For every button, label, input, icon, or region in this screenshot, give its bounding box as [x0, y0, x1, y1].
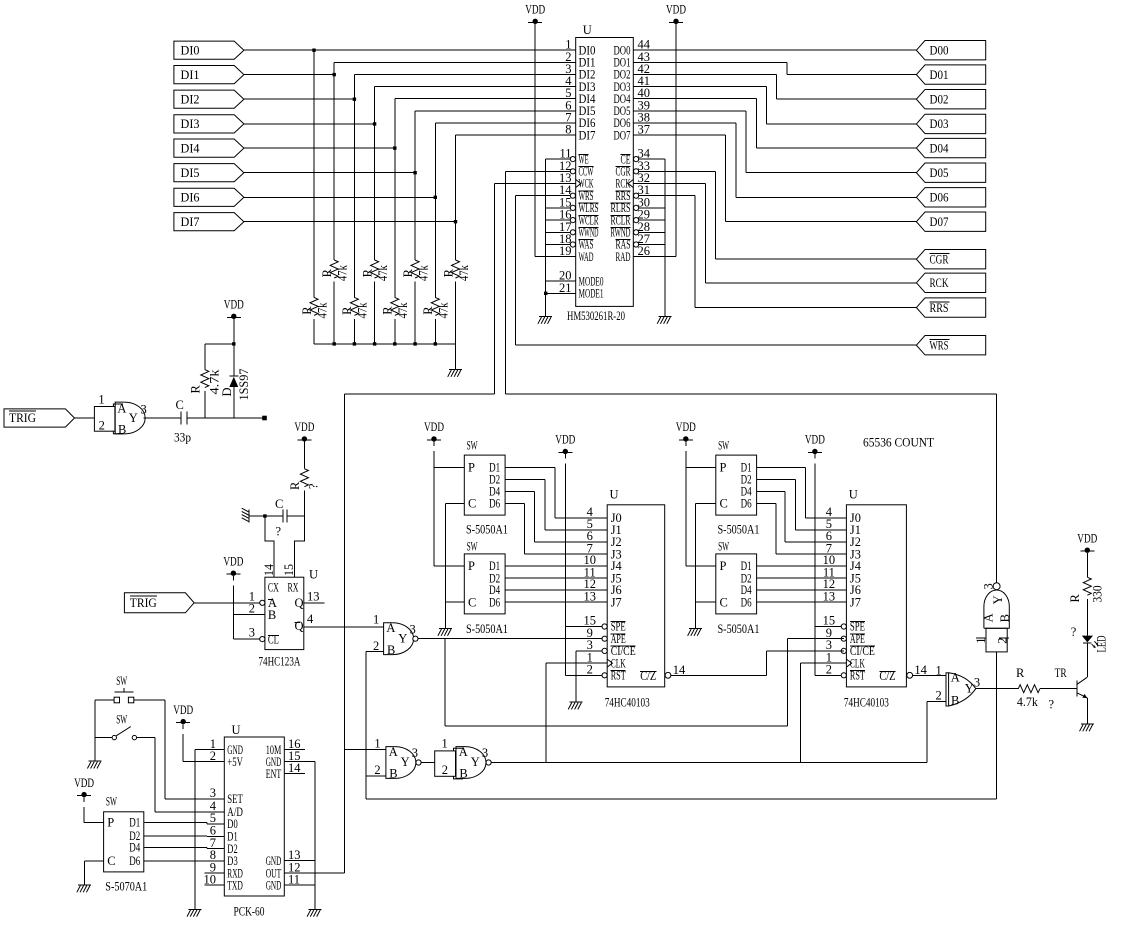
svg-text:S-5050A1: S-5050A1: [466, 522, 508, 536]
diode D 1SS97: [220, 344, 251, 418]
svg-text:WRS: WRS: [930, 338, 949, 352]
resistor R ? (123A timing): [288, 442, 321, 516]
power VDD (right switch P): [676, 420, 696, 441]
wire TXD stub: [205, 884, 225, 886]
power VDD (left SPE/RST): [555, 433, 575, 454]
svg-text:13: 13: [583, 589, 596, 603]
pin 7 DI6 label: [565, 111, 595, 131]
svg-text:HM530261R-20: HM530261R-20: [567, 309, 625, 323]
svg-text:47k: 47k: [396, 302, 410, 319]
wire left D2 to J1: [505, 480, 607, 530]
svg-text:VDD: VDD: [805, 433, 825, 447]
svg-text:S-5070A1: S-5070A1: [105, 880, 147, 894]
node TRIG input arrow (to 123A): [124, 593, 194, 613]
wire resistor to base: [1040, 688, 1077, 690]
svg-text:A: A: [386, 621, 395, 635]
pin 15 WLRS: [559, 195, 599, 215]
svg-text:DI4: DI4: [181, 141, 201, 155]
node terminal square: [262, 416, 267, 421]
gate U XOR (C/Z vs clock): [935, 670, 980, 707]
power VDD (S-5070A1 P): [74, 776, 94, 798]
svg-text:1: 1: [974, 638, 988, 644]
svg-text:47k: 47k: [356, 302, 370, 319]
svg-text:C: C: [176, 398, 184, 412]
svg-text:CX: CX: [268, 581, 279, 595]
svg-text:S-5050A1: S-5050A1: [466, 622, 508, 636]
svg-text:47k: 47k: [336, 264, 350, 281]
svg-text:P: P: [468, 559, 475, 573]
wire pin40 DO4 to D04: [633, 99, 916, 148]
resistor R 4.7k (pull-up): [188, 344, 221, 418]
svg-text:8: 8: [565, 123, 571, 137]
wire pin33 CGR to CGR arrow: [639, 171, 917, 259]
wire right D2 to J1: [757, 480, 847, 530]
ground (PCK-60 pin1): [187, 909, 201, 916]
svg-text:3: 3: [982, 583, 996, 589]
svg-text:CGR: CGR: [930, 252, 949, 266]
wire left C/Z carry to right CI/CE: [671, 651, 767, 675]
PCK-60 right pin labels: [266, 737, 302, 892]
wire B-net vertical and bottom run: [366, 652, 997, 799]
wire pin13 WCK out: [495, 184, 576, 395]
wire left CI/CE to ground: [576, 651, 602, 702]
node CGR output arrow: [916, 250, 985, 269]
svg-text:SW: SW: [467, 539, 478, 553]
ground (cap left, rotated): [242, 508, 249, 522]
svg-text:1: 1: [442, 737, 448, 751]
svg-text:26: 26: [638, 244, 651, 258]
svg-text:Y: Y: [471, 755, 480, 769]
switch SW S-5050A1 (left lower): [464, 539, 508, 636]
ground (left of IC): [538, 317, 552, 324]
svg-text:ENT: ENT: [266, 767, 282, 781]
ground (right switch C): [688, 629, 702, 636]
svg-text:Y: Y: [398, 631, 407, 645]
resistor R 47k pull-down on DI4: [381, 148, 411, 344]
svg-text:A: A: [389, 745, 398, 759]
wire pin12 CCW out: [505, 171, 570, 394]
pin 4 DI3 label: [565, 74, 595, 94]
svg-text:B: B: [387, 643, 395, 657]
wire DI1 to pull-up column and pin 2: [244, 62, 576, 76]
svg-text:GND: GND: [266, 878, 282, 892]
ground (switch common): [87, 761, 101, 768]
svg-text:4: 4: [307, 612, 314, 626]
wire A/D pin: [155, 811, 225, 813]
svg-text:SW: SW: [116, 674, 127, 688]
pin 13 WCK clock wedge: [576, 180, 581, 188]
power VDD (123A RX resistor): [294, 420, 314, 441]
pin 30 RLRS: [611, 195, 651, 215]
pin 27 RAS: [616, 232, 651, 252]
pin 12 CCW: [559, 159, 594, 179]
wire 10M stub: [284, 749, 305, 751]
switch SW S-5050A1 (right upper): [716, 438, 760, 536]
wire resistor common rail to ground: [314, 342, 456, 369]
pin 8 DI7 label: [565, 123, 595, 143]
svg-text:47k: 47k: [376, 264, 390, 281]
ground (emitter): [1080, 724, 1094, 731]
svg-text:VDD: VDD: [294, 420, 314, 434]
svg-text:RX: RX: [288, 581, 299, 595]
wire pin31 RRS to RRS arrow: [639, 196, 917, 308]
resistor R 47k pull-down on DI5: [401, 173, 431, 344]
pin 38 DO6 label and wire: [614, 111, 651, 131]
svg-text:14: 14: [288, 761, 301, 775]
IC U 74HC40103 (right) body: [823, 488, 928, 710]
pin 21 MODE1: [544, 281, 604, 301]
IC U PCK-60 body: [224, 723, 284, 918]
wire C pins to ground (right): [695, 504, 715, 629]
wire gate1 B input: [366, 775, 386, 777]
pin 41 DO3 label and wire: [614, 74, 651, 94]
pin 40 DO4 label and wire: [614, 86, 651, 106]
svg-text:DI7: DI7: [579, 128, 596, 142]
svg-text:J7: J7: [611, 595, 622, 609]
svg-text:D04: D04: [930, 141, 950, 155]
svg-text:A: A: [951, 670, 960, 684]
svg-text:R: R: [188, 385, 202, 394]
PCK-60 left pin labels: [204, 737, 244, 892]
svg-text:RAD: RAD: [616, 250, 631, 264]
wire WCK net (pin13 to PCK-60 OUT and gate): [344, 394, 494, 873]
wire DI4 to pull-up column and pin 5: [244, 99, 576, 150]
svg-text:DI7: DI7: [181, 215, 200, 229]
node RCK output arrow: [916, 273, 985, 292]
svg-text:J7: J7: [850, 595, 861, 609]
svg-text:DI5: DI5: [181, 166, 200, 180]
wire pin1 GND to ground: [195, 750, 225, 910]
wire DI3 to pull-up column and pin 4: [244, 87, 576, 126]
svg-text:VDD: VDD: [224, 298, 244, 312]
wire VDD to SPE and RST (right): [815, 454, 841, 675]
pin 1 A wire with bubble: [194, 590, 265, 606]
resistor R 47k pull-down on DI0: [300, 50, 330, 344]
switch SW S-5070A1: [104, 795, 148, 894]
node D03 output arrow: [916, 114, 985, 133]
svg-text:Y: Y: [401, 755, 410, 769]
svg-text:DI1: DI1: [181, 68, 200, 82]
resistor R 47k pull-down on DI7: [441, 222, 471, 344]
svg-text:D05: D05: [930, 166, 949, 180]
wire left lower D to J4: [505, 565, 607, 567]
wire RXD stub: [205, 872, 225, 874]
svg-text:330: 330: [1091, 586, 1105, 603]
gate U NAND 2 (clock driver): [435, 737, 492, 781]
wire right C/Z to XOR A: [912, 674, 946, 676]
pin 32 RCK clock wedge: [628, 180, 633, 188]
wire gate1 A input: [344, 749, 386, 751]
wire D1 to PCK D0: [144, 822, 225, 824]
resistor R 47k pull-down on DI2: [340, 99, 370, 344]
wire right lower D to J7: [757, 601, 847, 603]
pin 3 DI2 label: [565, 62, 595, 82]
svg-text:37: 37: [638, 123, 651, 137]
pin 17 WWND: [559, 220, 599, 240]
svg-text:P: P: [720, 461, 727, 475]
svg-text:3: 3: [482, 746, 488, 760]
wire VDD to SPE and RST (left): [565, 454, 602, 675]
pin 1 DI0 label: [565, 38, 595, 58]
wire C pin to ground: [85, 861, 104, 885]
switch SW (A/D toggle): [112, 712, 136, 740]
wire APE link down and right counter APE: [445, 639, 788, 726]
wire right control pins to ground: [639, 159, 665, 316]
wire OUT pin to WCK net: [284, 872, 344, 874]
wire toggle contacts: [95, 738, 155, 812]
svg-text:VDD: VDD: [74, 776, 94, 790]
svg-text:R: R: [1016, 666, 1025, 680]
IC U 74HC40103 (left) body: [583, 488, 686, 710]
capacitor C 33p: [174, 398, 191, 445]
svg-text:R: R: [401, 268, 415, 277]
pin 18 WAS: [559, 232, 594, 252]
svg-text:3: 3: [249, 626, 255, 640]
ground (resistor rail): [448, 370, 462, 377]
resistor R 4.7k (base): [1016, 666, 1055, 711]
svg-text:R: R: [441, 268, 455, 277]
ground (right of IC): [657, 317, 671, 324]
svg-text:B: B: [951, 693, 959, 707]
svg-text:VDD: VDD: [555, 433, 575, 447]
wire VDD to pin 2 B and pin 3 CL: [233, 576, 265, 642]
svg-text:Q: Q: [295, 619, 304, 633]
node DI5 input arrow: [174, 164, 244, 182]
svg-text:SW: SW: [718, 438, 729, 452]
svg-text:R: R: [381, 306, 395, 315]
svg-text:13: 13: [823, 589, 836, 603]
wire LED to R330: [1086, 599, 1088, 636]
gate U NAND (after 123A): [373, 612, 418, 657]
wire right CLK input: [800, 662, 846, 664]
svg-text:3: 3: [141, 403, 147, 417]
pin 33 CGR: [616, 159, 651, 179]
power VDD (left switch P): [424, 420, 444, 441]
svg-text:A: A: [981, 613, 995, 622]
svg-text:A: A: [117, 401, 126, 415]
svg-text:R: R: [300, 306, 314, 315]
ground (left CI/CE): [568, 702, 582, 709]
svg-text:P: P: [468, 461, 475, 475]
wire left control pins to ground: [546, 159, 571, 316]
svg-text:SW: SW: [106, 795, 117, 809]
svg-text:R: R: [320, 268, 334, 277]
svg-text:P: P: [720, 559, 727, 573]
wire gate Y to APE (left 74HC40103): [418, 638, 602, 640]
svg-text:2: 2: [826, 663, 832, 677]
svg-text:U: U: [583, 23, 592, 37]
svg-text:D02: D02: [930, 92, 949, 106]
wire VDD to pin19 WAD: [534, 24, 536, 257]
svg-text:2: 2: [587, 663, 593, 677]
resistor R 47k pull-down on DI3: [360, 124, 390, 344]
svg-text:19: 19: [559, 244, 572, 258]
svg-text:RCK: RCK: [930, 276, 949, 290]
svg-text:3: 3: [210, 786, 216, 800]
IC U HM530261R-20 body: [567, 23, 633, 323]
node D02 output arrow: [916, 90, 985, 109]
wire D2 to PCK D1: [144, 835, 225, 838]
svg-text:D: D: [220, 387, 234, 396]
svg-text:2: 2: [99, 419, 105, 433]
ground (PCK-60 GND pins): [307, 909, 321, 916]
IC U 74HC123A body: [259, 563, 319, 668]
svg-text:SET: SET: [227, 792, 243, 806]
wire CCW net (pin12 to inverter output): [505, 393, 996, 395]
svg-text:SW: SW: [116, 712, 127, 726]
pin 4 Qbar wire to gate A: [304, 612, 384, 627]
wire VDD to P pins (left): [434, 442, 464, 566]
power VDD (trigger clamp): [224, 298, 244, 319]
svg-text:DI0: DI0: [181, 43, 200, 57]
svg-text:47k: 47k: [416, 264, 430, 281]
wire cap network to CX/RX pins: [249, 514, 304, 577]
svg-text:SW: SW: [718, 539, 729, 553]
svg-text:?: ?: [1049, 698, 1055, 712]
svg-text:D6: D6: [129, 854, 140, 868]
LED ?: [1071, 625, 1109, 653]
node D01 output arrow: [916, 65, 985, 84]
svg-text:D07: D07: [930, 215, 949, 229]
svg-text:B: B: [389, 767, 397, 781]
svg-text:Y: Y: [129, 411, 138, 425]
svg-text:D6: D6: [741, 497, 752, 511]
wire right APE input: [788, 638, 844, 640]
node D05 output arrow: [916, 163, 985, 182]
pin 32 RCK: [616, 171, 651, 191]
svg-text:U: U: [309, 568, 318, 582]
svg-text:C: C: [468, 595, 476, 609]
wire right D1 to J0: [757, 468, 847, 518]
svg-text:D00: D00: [930, 43, 949, 57]
wire gate Y to capacitor: [144, 417, 182, 419]
svg-text:DI3: DI3: [181, 117, 200, 131]
ground (left switch C): [438, 629, 452, 636]
wire VDD to pin26 RAD: [675, 24, 677, 257]
wire VDD to P pin: [84, 797, 104, 822]
svg-text:3: 3: [410, 622, 416, 636]
wire D4 to PCK D2: [144, 847, 225, 848]
ground (S-5070A1 C): [77, 885, 91, 892]
wire pin44 DO0 to D00: [633, 49, 916, 51]
svg-text:D6: D6: [741, 595, 752, 609]
svg-text:2: 2: [996, 638, 1010, 644]
svg-text:B: B: [459, 767, 467, 781]
gate U NAND 1 (clock shaper): [374, 736, 421, 780]
svg-text:VDD: VDD: [666, 3, 686, 17]
wire pin14 WRS to WRS arrow: [515, 196, 916, 346]
svg-text:C: C: [275, 497, 283, 511]
wire right lower D to J4: [757, 565, 847, 567]
svg-text:RRS: RRS: [930, 301, 949, 315]
wire VDD to R and D: [205, 319, 236, 346]
svg-text:VDD: VDD: [173, 703, 193, 717]
svg-text:B: B: [998, 614, 1012, 622]
wire left D1 to J0: [505, 468, 607, 518]
svg-text:74HC40103: 74HC40103: [605, 695, 650, 709]
gate U NAND inverter (vertical, to CCW): [974, 583, 1012, 652]
pin 31 RRS: [616, 183, 651, 203]
svg-text:R: R: [340, 306, 354, 315]
wire ENT stub: [284, 773, 305, 775]
svg-text:R: R: [1068, 594, 1082, 603]
wire DI6 to pull-up column and pin 7: [244, 123, 576, 199]
svg-text:D01: D01: [930, 68, 949, 82]
svg-text:10: 10: [204, 872, 217, 886]
wire XOR B input: [927, 700, 946, 702]
node TRIG input arrow (top): [4, 409, 75, 427]
pin 39 DO5 label and wire: [614, 98, 651, 118]
pin 26 RAD: [616, 244, 651, 264]
pin 34 CE: [621, 147, 651, 167]
svg-text:A: A: [459, 745, 468, 759]
power VDD (right SPE/RST): [805, 433, 825, 454]
pin 5 DI4 label: [565, 86, 596, 106]
svg-text:1: 1: [374, 736, 380, 750]
svg-text:TXD: TXD: [227, 878, 243, 892]
switch SW (SET pushbutton): [114, 674, 134, 703]
power VDD rail symbol (left of HM530261R-20): [525, 3, 545, 24]
svg-text:14: 14: [262, 563, 276, 576]
wire DI5 to pull-up column and pin 6: [244, 111, 576, 174]
wire left D4 to J2: [505, 492, 607, 542]
svg-text:VDD: VDD: [1077, 531, 1097, 545]
svg-text:D1: D1: [129, 816, 140, 830]
pin 20 MODE0: [546, 269, 604, 289]
svg-text:S-5050A1: S-5050A1: [718, 622, 760, 636]
svg-text:Y: Y: [991, 595, 1005, 604]
pin 42 DO2 label and wire: [614, 62, 651, 82]
svg-text:1: 1: [373, 612, 379, 626]
node DI3 input arrow: [174, 115, 244, 133]
wire DI0 to pull-up column and pin 1: [244, 49, 576, 52]
svg-text:B: B: [268, 608, 276, 622]
power VDD rail symbol (right of HM530261R-20): [666, 3, 686, 24]
wire pushbutton contacts: [95, 700, 165, 799]
svg-text:P: P: [107, 816, 114, 830]
switch SW S-5050A1 (left upper): [464, 438, 508, 536]
node WRS output arrow: [916, 336, 985, 355]
svg-text:Y: Y: [965, 682, 974, 696]
power VDD (PCK-60 +5V): [173, 703, 193, 725]
svg-text:TRIG: TRIG: [9, 411, 36, 425]
wire GND pins 15/13/11 to ground: [284, 762, 315, 910]
svg-text:74HC123A: 74HC123A: [259, 654, 301, 668]
wire inverter output to CCW net: [996, 394, 998, 583]
svg-text:VDD: VDD: [424, 420, 444, 434]
svg-text:1: 1: [98, 392, 104, 406]
svg-text:D06: D06: [930, 191, 949, 205]
svg-text:13: 13: [307, 589, 320, 603]
svg-text:4.7k: 4.7k: [1017, 695, 1039, 709]
wire pin41 DO3 to D03: [633, 87, 916, 124]
node DI0 input arrow: [174, 41, 244, 59]
resistor R 330: [1068, 577, 1105, 602]
pin 44 DO0 label and wire: [614, 38, 651, 58]
pin 29 RCLR: [611, 208, 651, 228]
node DI4 input arrow: [174, 139, 244, 157]
wire pin42 DO2 to D02: [633, 75, 916, 100]
wire DI2 to pull-up column and pin 3: [244, 75, 576, 101]
pin 13 WCK: [559, 171, 594, 191]
svg-text:WAD: WAD: [579, 250, 594, 264]
node DI2 input arrow: [174, 90, 244, 108]
svg-text:DO7: DO7: [614, 128, 631, 142]
svg-text:MODE1: MODE1: [579, 287, 604, 301]
wire capacitor to R/D node: [187, 417, 264, 419]
capacitor C ? (123A timing): [275, 497, 287, 539]
svg-text:R: R: [421, 306, 435, 315]
